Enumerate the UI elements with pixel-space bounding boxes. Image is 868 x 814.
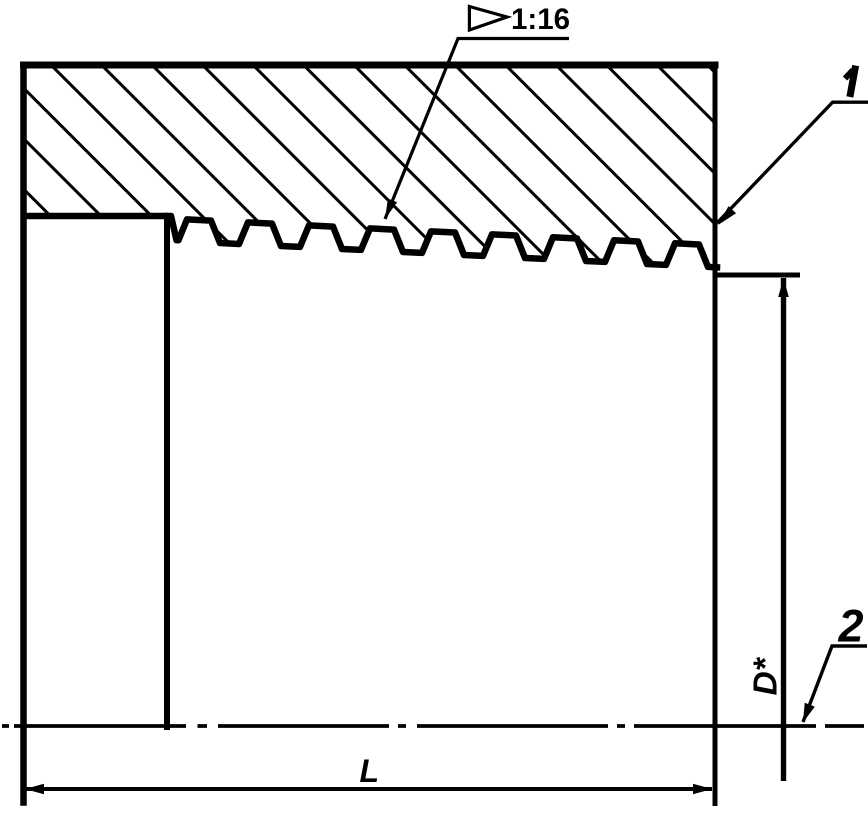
svg-text:L: L xyxy=(360,753,380,789)
svg-text:2: 2 xyxy=(838,601,864,652)
svg-text:1:16: 1:16 xyxy=(511,3,570,36)
svg-text:D*: D* xyxy=(748,656,785,695)
